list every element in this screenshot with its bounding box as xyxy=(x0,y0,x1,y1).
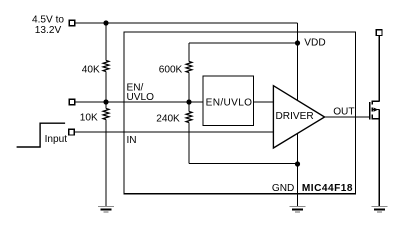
wire VDD vertical drop into IC xyxy=(297,23,299,101)
svg-text:MIC44F18: MIC44F18 xyxy=(302,183,353,194)
junction EN/600K/240K xyxy=(186,99,191,104)
svg-text:VDD: VDD xyxy=(304,38,325,49)
op-amp U1 driver triangle xyxy=(273,86,324,148)
svg-text:IN: IN xyxy=(127,135,137,146)
svg-text:GND: GND xyxy=(272,183,294,194)
terminal T2 EN pad xyxy=(69,99,75,105)
ground G1 (10K bottom) xyxy=(98,207,114,213)
terminal T1 supply input pad xyxy=(69,20,75,26)
svg-text:OUT: OUT xyxy=(333,107,354,118)
resistor R1 40K (supply to EN) xyxy=(103,23,109,102)
wire GND pin down to ground xyxy=(297,164,299,207)
transistor Q1 external N-MOSFET xyxy=(370,101,380,120)
wire EN net (terminal to EN/UVLO block) xyxy=(75,101,203,103)
IC box MIC44F18 outline xyxy=(124,32,356,194)
wire source/body down to ground xyxy=(378,110,380,207)
wire EN/UVLO block output to driver xyxy=(254,101,274,103)
wire GND rail (240K bottom to GND junction) xyxy=(189,163,298,165)
svg-text:Input: Input xyxy=(45,134,68,145)
svg-text:240K: 240K xyxy=(156,114,180,125)
block EN/UVLO comparator xyxy=(203,76,254,126)
ground G3 (MOSFET source) xyxy=(371,207,387,213)
drain stub xyxy=(372,100,379,102)
ground G2 (GND pin) xyxy=(290,207,306,213)
junction GND rail xyxy=(295,161,300,166)
channel segment source xyxy=(371,115,373,120)
svg-text:UVLO: UVLO xyxy=(127,92,155,103)
svg-text:10K: 10K xyxy=(80,112,98,123)
svg-text:600K: 600K xyxy=(159,65,183,76)
terminal T3 IN pad xyxy=(69,129,75,135)
gate bar xyxy=(369,102,371,120)
terminal T4 drain pad xyxy=(376,30,382,36)
svg-text:DRIVER: DRIVER xyxy=(276,111,314,122)
wire drain up to pad xyxy=(378,36,380,102)
wire driver bottom to GND junction xyxy=(297,133,299,164)
waveform input step annotation xyxy=(17,123,66,147)
source stub xyxy=(372,118,379,120)
resistor R3 600K (VDD to EN, internal) xyxy=(186,43,192,102)
svg-text:40K: 40K xyxy=(82,65,100,76)
body arrow xyxy=(374,108,379,112)
svg-text:13.2V: 13.2V xyxy=(35,25,62,36)
channel segment body xyxy=(371,108,373,112)
wire supply rail (top, y=23) xyxy=(75,22,298,24)
svg-text:EN/UVLO: EN/UVLO xyxy=(206,98,253,109)
channel segment drain xyxy=(371,101,373,105)
junction EN/40K/10K xyxy=(103,99,108,104)
wire IN net (terminal to driver input) xyxy=(75,131,274,133)
wire OUT (driver apex to MOSFET gate) xyxy=(325,116,370,118)
resistor R2 10K (EN to ground) xyxy=(103,102,109,207)
body lead stem xyxy=(373,109,380,111)
resistor R4 240K (EN to GND rail, internal) xyxy=(186,102,192,164)
junction supply/40K xyxy=(103,20,108,25)
wire 600K top to VDD node xyxy=(189,42,298,44)
node VDD junction xyxy=(295,40,300,45)
